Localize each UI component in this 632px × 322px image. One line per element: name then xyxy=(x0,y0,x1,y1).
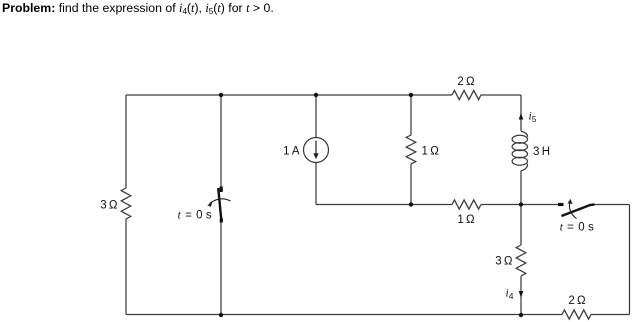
title text xyxy=(2,1,274,16)
wire after right switch xyxy=(595,204,630,206)
svg-text:1 A: 1 A xyxy=(283,146,300,158)
svg-text:i5: i5 xyxy=(529,111,537,125)
wire middle rail left xyxy=(316,204,452,206)
current source arrow xyxy=(313,141,318,160)
current arrow i4 xyxy=(519,291,524,298)
svg-text:2 Ω: 2 Ω xyxy=(568,295,586,307)
switch SW2 right (closing) xyxy=(558,199,595,219)
junction node top-switch xyxy=(219,93,223,97)
wire left rail bottom xyxy=(125,219,127,315)
wire top rail right xyxy=(481,94,522,96)
junction node bottom-right xyxy=(519,313,523,317)
wire top rail left xyxy=(126,94,452,96)
wire current source branch bottom xyxy=(315,163,317,205)
inductor L 3H coil xyxy=(521,131,528,137)
current arrow i5 xyxy=(519,113,524,120)
svg-text:t = 0 s: t = 0 s xyxy=(560,221,595,233)
resistor R 3ohm right xyxy=(516,245,526,276)
current source I1 1A circle xyxy=(304,138,329,163)
resistor R 1ohm middle xyxy=(452,200,481,209)
wire 3ohm right branch bottom xyxy=(520,276,522,315)
switch SW1 left (opening) xyxy=(207,187,230,223)
svg-text:1 Ω: 1 Ω xyxy=(422,146,440,158)
wire bottom rail right xyxy=(591,314,630,316)
wire bottom rail left xyxy=(126,314,562,316)
resistor R 3ohm left xyxy=(121,188,131,219)
junction node bottom-switch xyxy=(219,313,223,317)
svg-text:t = 0 s: t = 0 s xyxy=(178,209,213,221)
junction node mid-right xyxy=(519,202,523,206)
wire 1ohm vertical branch bottom xyxy=(410,164,412,205)
resistor R 2ohm top xyxy=(452,90,481,99)
wire current source branch top xyxy=(315,95,317,138)
svg-text:1 Ω: 1 Ω xyxy=(457,214,475,226)
resistor R 1ohm vertical xyxy=(406,135,416,164)
svg-text:3 Ω: 3 Ω xyxy=(100,200,118,212)
wire 1ohm vertical branch top xyxy=(410,95,412,135)
junction node top-source xyxy=(314,93,318,97)
junction node mid-1ohm xyxy=(409,202,413,206)
wire switch branch bottom xyxy=(220,222,222,315)
wire middle rail right xyxy=(481,204,558,206)
resistor R 2ohm bottom xyxy=(562,310,591,319)
junction node top-1ohm xyxy=(409,93,413,97)
svg-text:3 Ω: 3 Ω xyxy=(495,256,513,268)
wire right rail xyxy=(629,205,631,315)
wire left rail top xyxy=(125,95,127,188)
wire inductor branch top xyxy=(520,95,522,131)
svg-text:3 H: 3 H xyxy=(533,146,550,158)
wire inductor branch bottom xyxy=(520,171,522,205)
svg-text:2 Ω: 2 Ω xyxy=(457,76,475,88)
wire switch branch top xyxy=(220,95,222,187)
svg-text:i4: i4 xyxy=(506,288,514,302)
wire 3ohm right branch top xyxy=(520,205,522,246)
